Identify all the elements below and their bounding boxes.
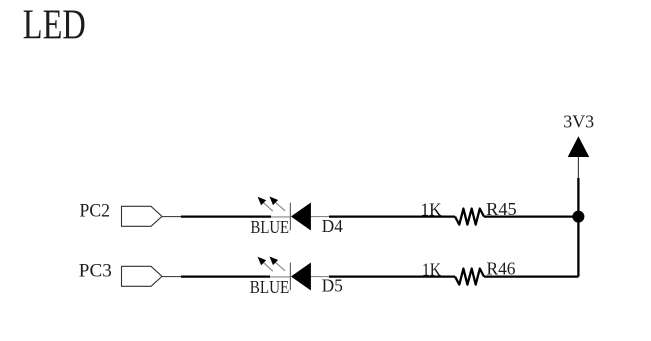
svg-text:BLUE: BLUE xyxy=(251,217,290,237)
svg-text:PC2: PC2 xyxy=(80,201,111,222)
svg-text:1K: 1K xyxy=(422,259,441,279)
svg-text:BLUE: BLUE xyxy=(250,277,289,297)
svg-text:1K: 1K xyxy=(421,199,442,219)
svg-text:R46: R46 xyxy=(487,258,516,278)
svg-text:LED: LED xyxy=(23,2,86,48)
svg-text:D5: D5 xyxy=(322,275,343,295)
svg-text:PC3: PC3 xyxy=(79,261,112,282)
svg-text:3V3: 3V3 xyxy=(563,111,594,131)
svg-text:D4: D4 xyxy=(322,216,343,236)
